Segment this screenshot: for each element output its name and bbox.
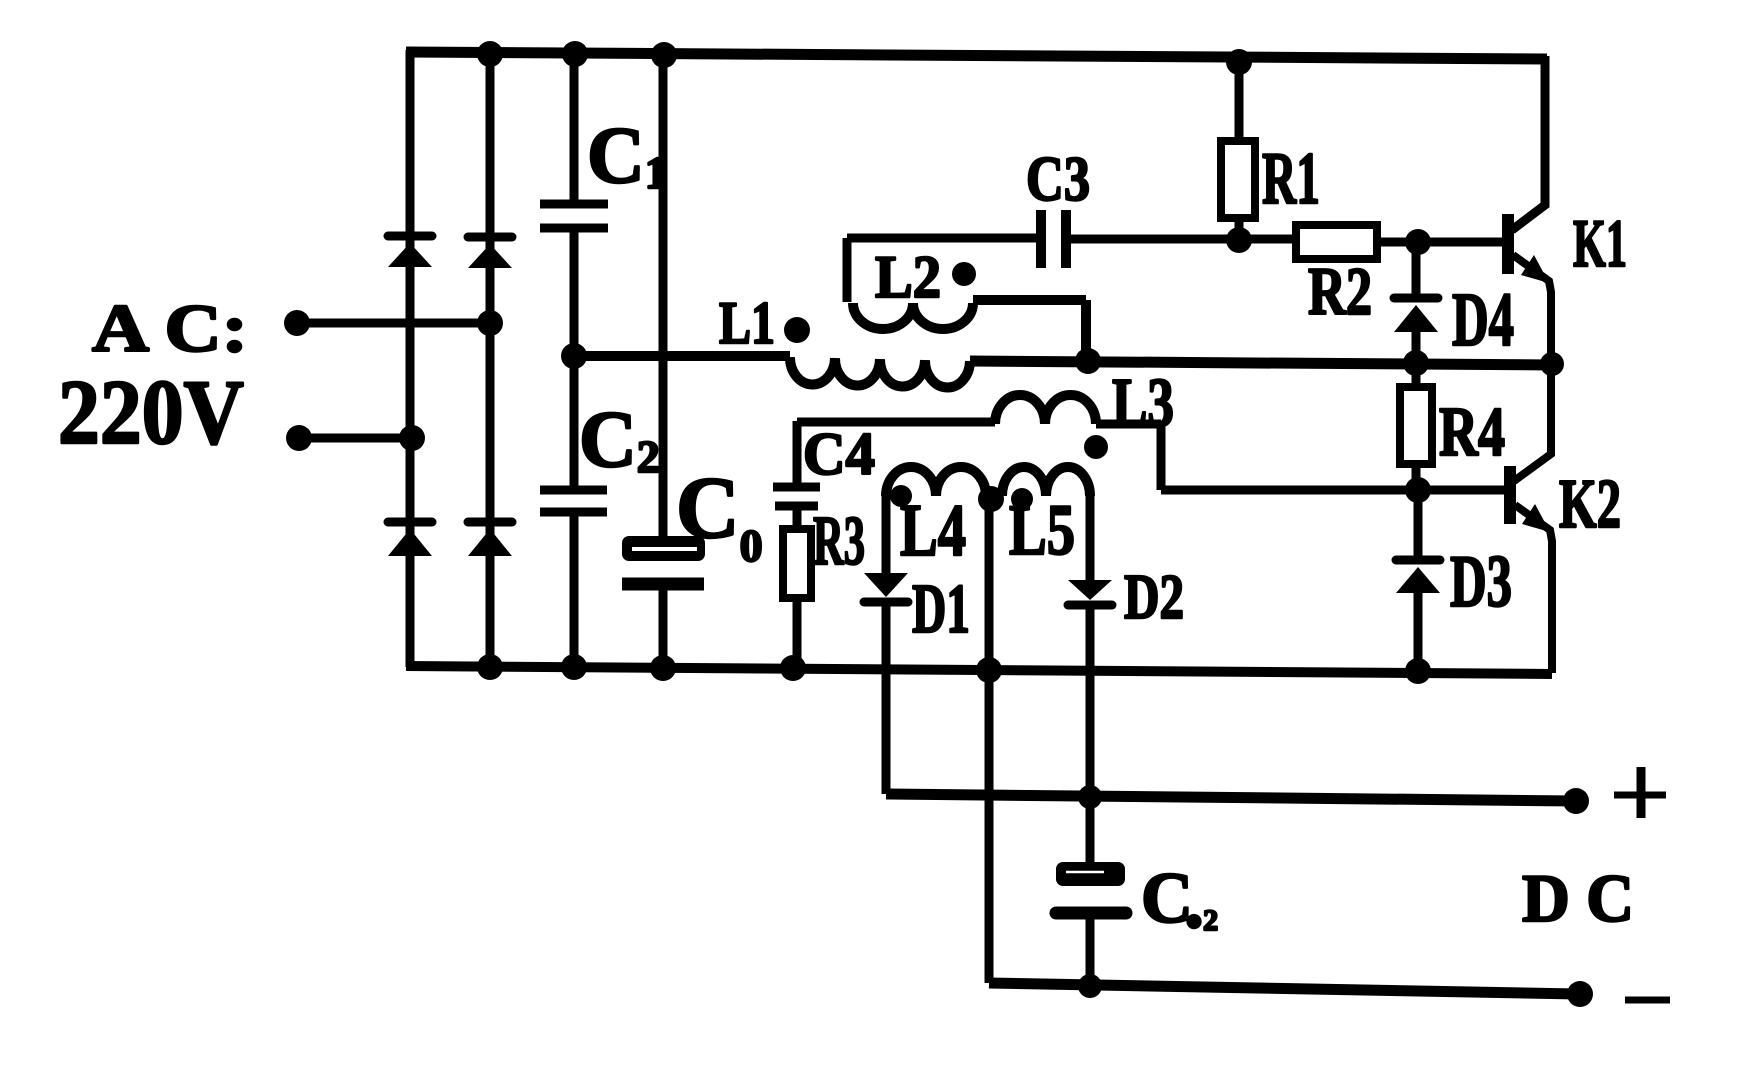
wire L2 right leg bbox=[973, 300, 1086, 360]
node D2 / plus line / C02 bbox=[1078, 785, 1102, 809]
svg-text:R4: R4 bbox=[1439, 394, 1505, 471]
svg-text:D3: D3 bbox=[1450, 541, 1512, 623]
svg-text:D1: D1 bbox=[912, 571, 970, 648]
wire main tap line to transistors bbox=[970, 361, 1553, 365]
capacitor C4 bbox=[793, 421, 802, 485]
phase dot L3 bbox=[1084, 435, 1108, 459]
node bottom bus / C0 branch bbox=[650, 655, 676, 681]
wire AC line 1 bbox=[296, 319, 492, 328]
svg-text:220V: 220V bbox=[58, 361, 244, 463]
node R4 / K2 base / D3 bbox=[1405, 477, 1431, 503]
wire AC line 2 bbox=[298, 434, 414, 443]
node center tap bbox=[978, 486, 1004, 512]
output terminal minus bbox=[1567, 981, 1593, 1007]
svg-text:R3: R3 bbox=[813, 503, 865, 580]
node bottom bus / center tap riser bbox=[976, 657, 1002, 683]
AC input terminal 1 bbox=[284, 310, 310, 336]
node D3 / bottom bus bbox=[1405, 658, 1431, 684]
wire L3 to K2 base node bbox=[1096, 424, 1420, 490]
phase dot L2 bbox=[952, 262, 976, 286]
plus sign bbox=[1614, 792, 1666, 799]
capacitor C3 bbox=[847, 234, 1036, 243]
svg-text:D C: D C bbox=[1522, 860, 1634, 936]
resistor R4 bbox=[1412, 364, 1421, 387]
svg-text:R1: R1 bbox=[1262, 138, 1320, 220]
transistor K2 bbox=[1420, 486, 1506, 495]
diode bridge upper-left bbox=[388, 232, 432, 241]
node R2 / D4 bbox=[1405, 229, 1431, 255]
node D4 / main tap line bbox=[1403, 350, 1429, 376]
diode bridge lower-left bbox=[388, 518, 432, 527]
output terminal plus bbox=[1563, 788, 1589, 814]
wire L4-L5 center tap bbox=[986, 491, 1002, 501]
svg-text:K2: K2 bbox=[1559, 466, 1621, 543]
diode D1 bbox=[882, 496, 891, 573]
inductor L2 bbox=[853, 303, 973, 329]
diode bridge lower-right bbox=[468, 518, 512, 527]
node C1 branch / L1 tap bbox=[561, 343, 587, 369]
transistor K1 bbox=[1418, 238, 1506, 246]
svg-text:D4: D4 bbox=[1452, 278, 1514, 362]
capacitor C1 bbox=[540, 204, 608, 228]
inductor L3 bbox=[797, 418, 995, 427]
node AC1 / bridge right branch bbox=[477, 310, 503, 336]
node L2 / main tap line bbox=[1075, 348, 1101, 374]
svg-text:C4: C4 bbox=[803, 421, 875, 487]
capacitor C0 electrolytic bbox=[622, 536, 705, 561]
capacitor C2 bbox=[540, 490, 607, 512]
wire L1 feed bbox=[574, 351, 790, 361]
node bottom bus / C2 branch bbox=[561, 654, 587, 680]
inductor L4 bbox=[886, 467, 986, 496]
diode D4 bbox=[1412, 242, 1421, 294]
resistor R1 bbox=[1235, 57, 1244, 141]
wire center tap to minus bbox=[985, 499, 994, 983]
node top bus / bridge right bbox=[477, 41, 503, 67]
capacitor C02 electrolytic bbox=[1086, 797, 1095, 862]
bottom return bus bbox=[406, 666, 1552, 674]
inductor L1 bbox=[790, 357, 970, 387]
inductor L5 bbox=[1002, 467, 1090, 496]
node K1 emitter / K2 collector / tap line bbox=[1540, 352, 1564, 376]
phase dot L4 bbox=[890, 485, 912, 507]
wire plus output bbox=[886, 794, 1576, 801]
node R3 / bottom bus bbox=[780, 655, 806, 681]
svg-text:L2: L2 bbox=[875, 244, 941, 310]
top supply bus bbox=[406, 52, 1547, 59]
minus sign bbox=[1625, 997, 1670, 1004]
wire L2 left leg bbox=[843, 238, 852, 302]
diode D3 bbox=[1414, 490, 1423, 558]
node top bus / R1 bbox=[1226, 49, 1252, 75]
node R1 / R2 / C3 bbox=[1226, 227, 1252, 253]
svg-text:R2: R2 bbox=[1308, 253, 1372, 329]
phase dot L1 bbox=[784, 317, 810, 343]
wire bridge right branch bbox=[486, 52, 495, 667]
resistor R3 bbox=[793, 508, 802, 529]
svg-text:L1: L1 bbox=[719, 290, 775, 356]
svg-text:K1: K1 bbox=[1573, 205, 1627, 281]
node bottom bus / bridge right bbox=[477, 654, 503, 680]
svg-text:D2: D2 bbox=[1124, 561, 1184, 632]
diode D2 bbox=[1086, 496, 1095, 580]
resistor R2 bbox=[1296, 225, 1377, 259]
wire R2 to K1 base bbox=[1377, 238, 1506, 247]
svg-text:A C:: A C: bbox=[92, 290, 248, 366]
wire C0 branch bbox=[659, 54, 668, 667]
svg-text:C3: C3 bbox=[1026, 143, 1090, 214]
node C02 / minus line bbox=[1078, 974, 1102, 998]
node top bus / C0 branch bbox=[651, 42, 677, 68]
diode bridge upper-right bbox=[468, 233, 512, 242]
AC input terminal 2 bbox=[286, 425, 312, 451]
wire C1 C2 branch bbox=[570, 53, 579, 667]
wire bridge left branch bbox=[406, 50, 415, 667]
node top bus / C1 branch bbox=[562, 41, 588, 67]
phase dot L5 bbox=[1011, 488, 1033, 510]
node AC2 / bridge left branch bbox=[399, 425, 425, 451]
